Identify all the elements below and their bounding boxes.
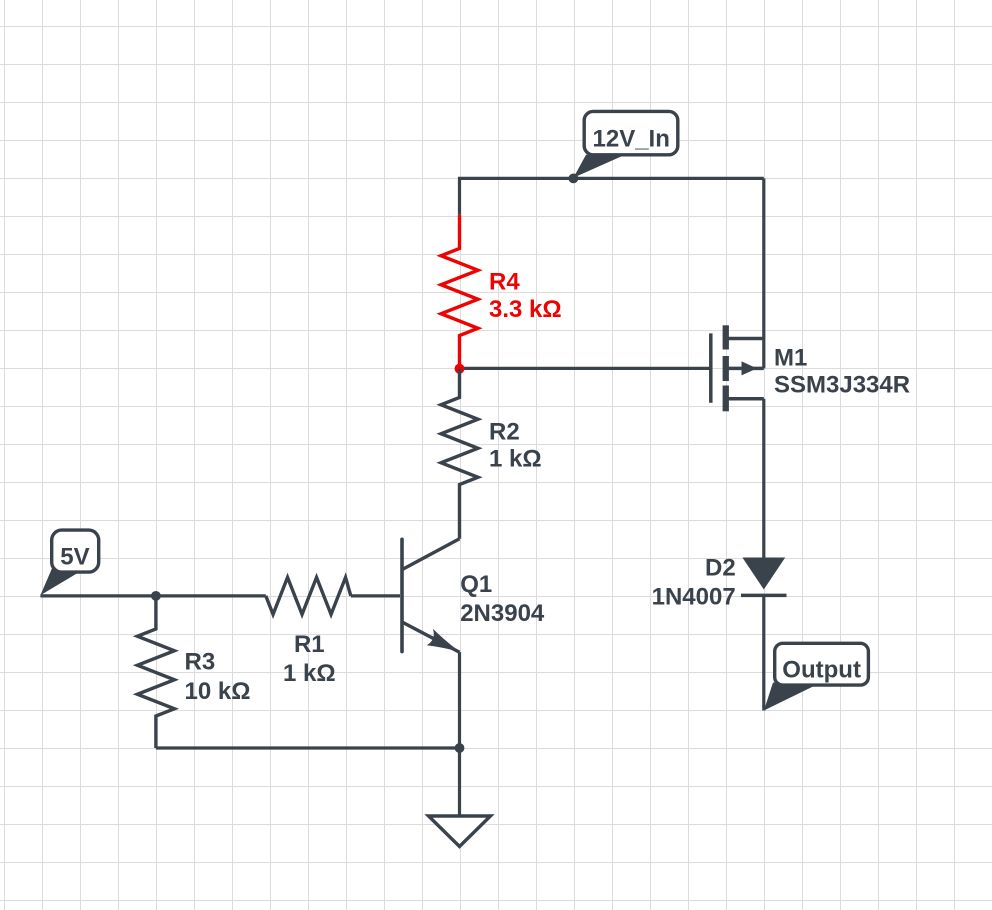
mosfet M1 (P-channel SSM3J334R) [711,325,910,411]
diode D2 (1N4007) [652,554,787,610]
svg-text:1 kΩ: 1 kΩ [489,445,542,472]
node red junction dot [455,364,465,374]
svg-text:12V_In: 12V_In [593,126,670,153]
svg-text:1N4007: 1N4007 [652,584,736,611]
wire right vertical (drain to M1) [762,178,765,368]
svg-text:M1: M1 [774,344,807,371]
net flag Output [764,643,869,710]
net flag 5V [40,530,98,595]
svg-text:3.3 kΩ: 3.3 kΩ [489,296,562,323]
node 12V_In junction dot [569,174,579,184]
node 5V/R3 junction dot [151,591,161,601]
resistor R3 [137,596,174,748]
wire gate (R4/R2 node to M1 gate) [460,367,711,370]
svg-text:D2: D2 [705,554,736,581]
svg-text:SSM3J334R: SSM3J334R [774,371,910,398]
wire bottom (R3 to emitter node) [156,746,460,749]
svg-text:R2: R2 [489,419,520,446]
wire diode to output [762,595,765,710]
ground [429,816,491,847]
svg-text:Output: Output [782,657,861,684]
node emitter junction dot [455,743,465,753]
net flag 12V_In [573,111,677,177]
transistor Q1 (NPN 2N3904) [402,539,460,652]
wire base rail (5V to Q1 base) [40,594,265,597]
svg-text:R1: R1 [294,631,325,658]
svg-text:10 kΩ: 10 kΩ [185,678,251,705]
wire emitter down [458,652,461,748]
wire M1 source to diode [762,399,765,558]
svg-text:Q1: Q1 [460,571,492,598]
wire to ground [458,748,461,816]
svg-text:1 kΩ: 1 kΩ [283,660,336,687]
wire top horizontal (12V_In rail) [460,178,764,214]
resistor R1 [266,577,351,614]
svg-text:2N3904: 2N3904 [460,600,545,627]
resistor R2 [441,369,478,539]
svg-text:R4: R4 [489,269,520,296]
resistor R4 (red, highlighted) [441,215,478,369]
svg-text:5V: 5V [60,544,89,571]
svg-text:R3: R3 [185,649,216,676]
